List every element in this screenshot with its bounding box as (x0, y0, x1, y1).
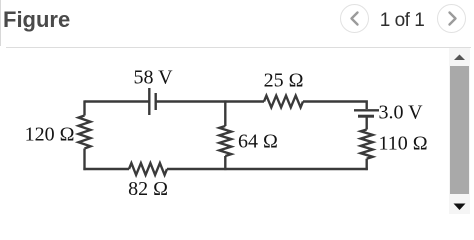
resistor R 82 ohm (129, 163, 167, 175)
svg-text:120 Ω: 120 Ω (25, 124, 75, 146)
svg-text:25 Ω: 25 Ω (264, 70, 304, 92)
resistor R 64 ohm (219, 126, 231, 156)
wire middle vertical bottom (224, 156, 226, 170)
scrollbar track (449, 48, 470, 214)
pagination next chevron (450, 13, 456, 25)
header divider (6, 47, 471, 48)
wire left vertical bottom (83, 149, 85, 171)
svg-text:110 Ω: 110 Ω (379, 133, 428, 155)
wire top-right segment (303, 102, 367, 110)
left panel edge (0, 0, 1, 46)
scrollbar thumb (450, 66, 469, 194)
svg-text:3.0 V: 3.0 V (379, 102, 424, 124)
scrollbar up arrow (454, 55, 465, 61)
wire top-left segment (85, 100, 150, 102)
scrollbar down arrow (454, 204, 466, 211)
svg-text:82 Ω: 82 Ω (128, 178, 168, 200)
wire bottom-right segment (167, 168, 368, 170)
svg-text:64 Ω: 64 Ω (238, 131, 278, 153)
pagination prev button (340, 4, 369, 33)
resistor R 110 ohm (361, 130, 373, 159)
wire top-middle segment (156, 100, 264, 102)
wire left vertical top (83, 100, 85, 115)
battery B2 3.0 V long plate (354, 109, 379, 111)
wire right vertical bottom (366, 159, 368, 170)
battery B2 3.0 V short plate (358, 115, 374, 118)
pagination next button (437, 4, 466, 33)
wire right vertical middle (366, 118, 368, 130)
svg-text:58 V: 58 V (133, 67, 173, 89)
header title "Figure" (3, 7, 70, 33)
battery B1 58 V long plate (148, 88, 150, 115)
pagination prev chevron (352, 13, 358, 25)
wire middle vertical top (224, 100, 226, 126)
battery B1 58 V short plate (154, 93, 156, 110)
resistor R 25 ohm (264, 96, 303, 108)
resistor R 120 ohm (79, 116, 91, 149)
pagination text "1 of 1" (378, 10, 426, 32)
wire bottom-left segment (83, 168, 129, 170)
